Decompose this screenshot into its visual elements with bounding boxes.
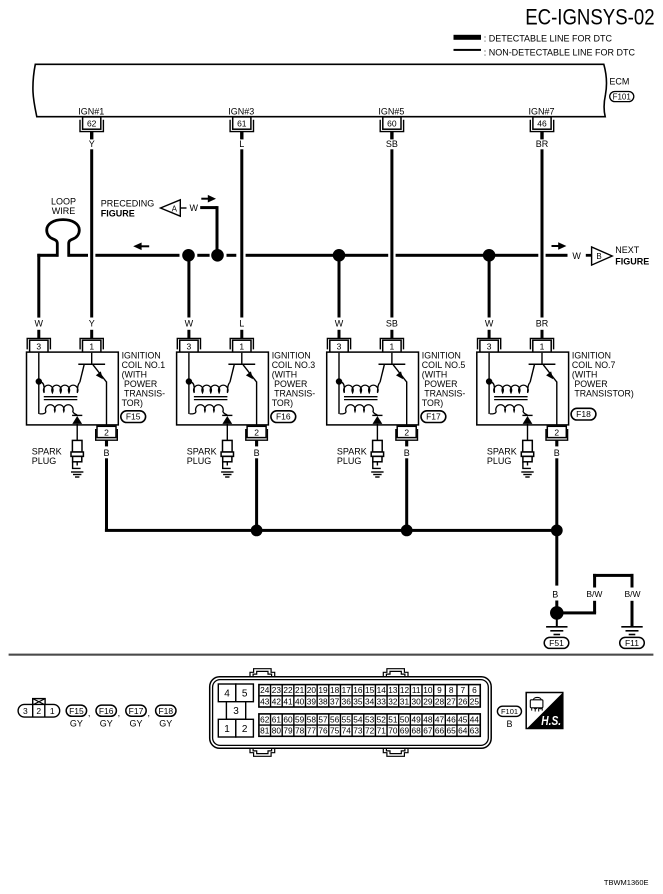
- svg-text:38: 38: [318, 696, 328, 706]
- svg-text:POWER: POWER: [422, 379, 458, 389]
- svg-text:SPARK: SPARK: [187, 447, 217, 457]
- connector F18 oval (bottom): [156, 705, 176, 729]
- transformer core: [44, 397, 78, 400]
- svg-text:50: 50: [400, 714, 410, 724]
- wire SB from ECM pin 60 to ignition coil: [390, 149, 393, 317]
- svg-text:72: 72: [365, 726, 375, 736]
- svg-text:TRANSIS-: TRANSIS-: [422, 388, 466, 398]
- svg-text:PRECEDING: PRECEDING: [101, 198, 155, 208]
- ECM connector top tab: [383, 669, 408, 677]
- ECM box: [33, 64, 607, 116]
- connector F17 oval (bottom): [126, 705, 150, 729]
- wire B from coil NO.5 to ground bus: [405, 458, 408, 529]
- svg-text:32: 32: [388, 696, 398, 706]
- svg-text:2: 2: [254, 428, 259, 438]
- svg-text:15: 15: [365, 685, 375, 695]
- svg-text:34: 34: [365, 696, 375, 706]
- svg-text:6: 6: [472, 685, 477, 695]
- ECM connector pin 61: [230, 117, 253, 140]
- wire color label W (above coil pin 3): [485, 318, 494, 328]
- ignition coil NO.7 pin 2: [546, 426, 568, 446]
- svg-text:3: 3: [487, 341, 492, 351]
- svg-text:Y: Y: [89, 318, 95, 328]
- transistor emitter wire to pin 2: [556, 382, 558, 426]
- svg-text:10: 10: [423, 685, 433, 695]
- wire B/W left leg (upper): [593, 574, 596, 588]
- svg-text:3: 3: [187, 341, 192, 351]
- H.S. logo: [526, 693, 563, 729]
- svg-text:1: 1: [50, 706, 55, 716]
- junction dot inside coil NO.3: [186, 378, 192, 384]
- wire color label B (coil NO.3 pin 2): [254, 448, 260, 458]
- spark plug label (coil NO.5): [337, 447, 367, 467]
- svg-text:IGNITION: IGNITION: [122, 350, 161, 360]
- svg-text:69: 69: [400, 726, 410, 736]
- spark plug (coil NO.5): [371, 440, 383, 468]
- svg-text:62: 62: [260, 714, 270, 724]
- svg-text:F15: F15: [126, 412, 141, 422]
- wire W stub into coil pin 3: [338, 330, 341, 339]
- svg-text:F17: F17: [426, 412, 441, 422]
- svg-text:IGNITION: IGNITION: [572, 350, 611, 360]
- svg-text:53: 53: [365, 714, 375, 724]
- wire color label B/W (left): [586, 589, 602, 599]
- loop wire label: [51, 197, 76, 216]
- wire color label B (coil NO.5 pin 2): [404, 448, 410, 458]
- junction dot (coil no.5 B): [401, 525, 413, 537]
- svg-text:75: 75: [330, 726, 340, 736]
- ignition coil NO.1 pin 3: [27, 338, 50, 352]
- next figure label: [615, 245, 649, 266]
- svg-text:36: 36: [342, 696, 352, 706]
- svg-text:F18: F18: [158, 706, 173, 716]
- svg-text:59: 59: [295, 714, 305, 724]
- svg-text:COIL NO.3: COIL NO.3: [272, 360, 316, 370]
- svg-text:SPARK: SPARK: [32, 447, 62, 457]
- ECM terminal label IGN#1: [78, 106, 104, 116]
- transformer primary winding: [40, 382, 80, 393]
- junction dot inside coil NO.7: [486, 378, 492, 384]
- drawing code TBWM1360E: [604, 878, 649, 887]
- ECM connector top tab: [250, 669, 275, 677]
- ignition coil NO.3 label: [272, 350, 316, 408]
- svg-text:7: 7: [460, 685, 465, 695]
- svg-text:(WITH: (WITH: [422, 369, 447, 379]
- wire B from coil NO.1 to ground bus: [105, 458, 108, 529]
- spark plug label (coil NO.3): [187, 447, 217, 467]
- svg-text:3: 3: [23, 706, 28, 716]
- svg-text:55: 55: [342, 714, 352, 724]
- junction dot (ground splice): [550, 606, 564, 620]
- svg-text:(WITH: (WITH: [272, 369, 297, 379]
- transformer primary winding: [340, 382, 380, 393]
- wire color label Y (above coil): [89, 318, 95, 328]
- svg-text:5: 5: [242, 689, 248, 700]
- svg-text:POWER: POWER: [272, 379, 308, 389]
- svg-text:43: 43: [260, 696, 270, 706]
- transformer core: [494, 397, 527, 400]
- svg-text:16: 16: [353, 685, 363, 695]
- svg-text:1: 1: [239, 341, 244, 351]
- svg-text:NEXT: NEXT: [615, 245, 640, 255]
- svg-text:IGN#7: IGN#7: [528, 106, 554, 116]
- legend detectable line: [454, 33, 613, 43]
- power transistor Q1: [78, 353, 106, 383]
- svg-text:17: 17: [342, 685, 352, 695]
- svg-text:60: 60: [283, 714, 293, 724]
- svg-text:58: 58: [307, 714, 317, 724]
- svg-text:WIRE: WIRE: [52, 206, 76, 216]
- svg-text:POWER: POWER: [122, 379, 158, 389]
- wire W left leg down to coil no.1: [37, 254, 40, 318]
- title EC-IGNSYS-02: [525, 5, 654, 30]
- svg-text:FIGURE: FIGURE: [101, 209, 135, 219]
- ignition coil NO.7 pin 1: [530, 338, 553, 352]
- svg-text:IGNITION: IGNITION: [272, 350, 311, 360]
- ground (spark plug NO.7): [521, 472, 533, 477]
- svg-text:B: B: [596, 252, 601, 261]
- svg-text:W: W: [35, 318, 44, 328]
- connector triangle A (preceding figure): [161, 200, 187, 216]
- power transistor Q3: [379, 353, 407, 383]
- ECM connector cells 4 5 3 1 2: [218, 684, 253, 737]
- svg-text:54: 54: [353, 714, 363, 724]
- svg-text:52: 52: [377, 714, 387, 724]
- svg-text:TOR): TOR): [422, 398, 443, 408]
- svg-text:B: B: [254, 448, 260, 458]
- svg-text:B: B: [103, 448, 109, 458]
- svg-text:: NON-DETECTABLE LINE FOR DTC: : NON-DETECTABLE LINE FOR DTC: [484, 48, 636, 58]
- wire color label SB (above coil): [386, 318, 398, 328]
- wire from pin 3 inside coil: [38, 353, 40, 414]
- svg-text:TRANSIS-: TRANSIS-: [272, 388, 316, 398]
- wire color label L (top): [239, 139, 244, 149]
- ECM connector bottom tab: [383, 748, 408, 756]
- svg-text:67: 67: [423, 726, 433, 736]
- wire color label B/W (right): [624, 589, 640, 599]
- svg-text:37: 37: [330, 696, 340, 706]
- svg-text:IGN#3: IGN#3: [228, 106, 254, 116]
- ground (spark plug NO.3): [221, 472, 233, 477]
- svg-text:41: 41: [283, 696, 293, 706]
- svg-text:COIL NO.7: COIL NO.7: [572, 360, 616, 370]
- svg-text:24: 24: [260, 685, 270, 695]
- svg-text:76: 76: [318, 726, 328, 736]
- svg-text:48: 48: [423, 714, 433, 724]
- svg-text:PLUG: PLUG: [32, 456, 57, 466]
- wire color label B (coil NO.7 pin 2): [554, 448, 560, 458]
- wire color label L (above coil): [239, 318, 244, 328]
- svg-text:46: 46: [447, 714, 457, 724]
- wire color label B (coil NO.1 pin 2): [103, 448, 109, 458]
- svg-text:31: 31: [400, 696, 410, 706]
- transformer secondary winding: [190, 405, 228, 415]
- svg-text:(WITH: (WITH: [572, 369, 597, 379]
- svg-text:4: 4: [224, 689, 230, 700]
- svg-text:18: 18: [330, 685, 340, 695]
- svg-text:45: 45: [458, 714, 468, 724]
- arrow right on bus (to next figure): [552, 242, 567, 250]
- wire W drop to coil no.3: [187, 255, 190, 317]
- svg-text:73: 73: [353, 726, 363, 736]
- wire from pin 3 inside coil: [338, 353, 340, 414]
- loop wire symbol: [47, 220, 80, 257]
- svg-text:TBWM1360E: TBWM1360E: [604, 878, 649, 887]
- ignition coil NO.1 pin 1: [80, 338, 103, 352]
- svg-text:GY: GY: [159, 719, 172, 729]
- junction dot (coil no.3 B): [251, 525, 263, 537]
- wire W drop to coil no.7: [488, 255, 491, 317]
- ECM connector F101 oval: [610, 92, 634, 102]
- wire from pin 3 inside coil: [488, 353, 490, 414]
- wire from diode to spark plug: [76, 424, 78, 441]
- wire B down to ground F51: [555, 530, 558, 585]
- svg-text:BR: BR: [536, 318, 549, 328]
- ground (spark plug NO.1): [71, 472, 83, 477]
- wire W stub into coil pin 3: [187, 330, 190, 339]
- preceding figure label: [101, 198, 155, 218]
- svg-text:EC-IGNSYS-02: EC-IGNSYS-02: [525, 5, 654, 30]
- svg-text:SPARK: SPARK: [487, 447, 517, 457]
- svg-text:13: 13: [388, 685, 398, 695]
- svg-text:B/W: B/W: [624, 589, 640, 599]
- svg-text:IGN#1: IGN#1: [78, 106, 104, 116]
- ECM connector pin 62: [80, 117, 103, 140]
- svg-text:GY: GY: [70, 719, 83, 729]
- svg-text:39: 39: [307, 696, 317, 706]
- wire B/W branch horizontal: [558, 611, 596, 614]
- ground connector F51 oval: [544, 637, 569, 648]
- svg-text:TRANSIS-: TRANSIS-: [122, 388, 166, 398]
- spark plug label (coil NO.7): [487, 447, 517, 467]
- wire B from coil NO.7 to ground bus: [555, 458, 558, 529]
- wire from diode to spark plug: [226, 424, 228, 441]
- wire color label BR (top): [536, 139, 549, 149]
- svg-text:GY: GY: [129, 719, 142, 729]
- svg-text:W: W: [335, 318, 344, 328]
- power transistor Q4: [529, 353, 557, 383]
- svg-text:: DETECTABLE LINE FOR DTC: : DETECTABLE LINE FOR DTC: [484, 33, 613, 43]
- svg-text:B: B: [552, 590, 558, 600]
- wire color label SB (top): [386, 139, 398, 149]
- junction dot (coil no.7 W): [483, 249, 496, 262]
- coil connector F15 oval: [121, 411, 146, 423]
- spark plug (coil NO.7): [521, 440, 533, 468]
- wire Y from ECM pin 62 to ignition coil: [90, 149, 93, 317]
- svg-text:20: 20: [307, 685, 317, 695]
- small coil connector view (3 2 1): [18, 699, 60, 718]
- spark plug label (coil NO.1): [32, 447, 62, 467]
- wire B below label: [555, 601, 558, 608]
- svg-text:3: 3: [36, 341, 41, 351]
- svg-text:TOR): TOR): [122, 398, 143, 408]
- svg-text:78: 78: [295, 726, 305, 736]
- ignition coil NO.5 pin 2: [396, 426, 418, 446]
- svg-text:1: 1: [224, 724, 230, 735]
- svg-text:PLUG: PLUG: [487, 456, 512, 466]
- svg-text:F16: F16: [276, 412, 291, 422]
- wire from pin 3 inside coil: [188, 353, 190, 414]
- svg-text:22: 22: [283, 685, 293, 695]
- transformer primary winding: [490, 382, 530, 393]
- wire color label W (above coil pin 3): [185, 318, 194, 328]
- svg-text:,: ,: [88, 708, 91, 718]
- svg-text:A: A: [172, 204, 178, 213]
- diode D1: [72, 415, 82, 424]
- svg-text:ECM: ECM: [609, 76, 629, 86]
- svg-text:COIL NO.1: COIL NO.1: [122, 360, 166, 370]
- wire from diode to spark plug: [376, 424, 378, 441]
- svg-text:71: 71: [377, 726, 387, 736]
- svg-text:79: 79: [283, 726, 293, 736]
- svg-text:POWER: POWER: [572, 379, 608, 389]
- ECM terminal label IGN#3: [228, 106, 254, 116]
- svg-text:74: 74: [342, 726, 352, 736]
- coil connector F18 oval: [571, 408, 596, 420]
- svg-text:11: 11: [412, 685, 421, 695]
- svg-text:46: 46: [537, 119, 547, 129]
- svg-text:B: B: [554, 448, 560, 458]
- svg-text:PLUG: PLUG: [337, 456, 362, 466]
- wire L from ECM pin 61 to ignition coil: [240, 149, 243, 317]
- svg-text:,: ,: [147, 708, 150, 718]
- transformer core: [194, 397, 228, 400]
- wire BR from ECM pin 46 to ignition coil: [541, 149, 544, 317]
- svg-text:2: 2: [104, 428, 109, 438]
- wire B from coil NO.3 to ground bus: [255, 458, 258, 529]
- wire BR stub into coil pin 1: [541, 330, 544, 339]
- transformer secondary winding: [40, 405, 78, 415]
- svg-text:63: 63: [470, 726, 480, 736]
- junction dot (coil no.3 W): [182, 249, 195, 262]
- svg-text:2: 2: [404, 428, 409, 438]
- ignition coil NO.1 box: [27, 352, 119, 425]
- ground connector F11 oval: [620, 637, 645, 648]
- legend non-detectable line: [454, 48, 636, 58]
- svg-text:23: 23: [272, 685, 282, 695]
- diode D3: [372, 415, 382, 424]
- svg-text:IGN#5: IGN#5: [378, 106, 404, 116]
- ignition coil NO.5 pin 1: [380, 338, 403, 352]
- svg-text:(WITH: (WITH: [122, 369, 147, 379]
- wire stem to ground F51: [556, 616, 558, 627]
- svg-text:2: 2: [242, 724, 248, 735]
- svg-text:B: B: [404, 448, 410, 458]
- svg-text:BR: BR: [536, 139, 549, 149]
- wire color label B (ground): [552, 590, 558, 600]
- svg-text:TRANSISTOR): TRANSISTOR): [572, 388, 634, 398]
- diode D2: [222, 415, 232, 424]
- ECM terminal label IGN#7: [528, 106, 554, 116]
- junction dot (coil no.7 B): [551, 525, 563, 537]
- junction dot inside coil NO.5: [336, 378, 342, 384]
- svg-text:30: 30: [412, 696, 422, 706]
- wire Y stub into coil pin 1: [90, 330, 93, 339]
- ECM connector pin 46: [530, 117, 553, 140]
- wire color label BR (above coil): [536, 318, 549, 328]
- arrow left on bus: [133, 243, 149, 251]
- ignition coil NO.1 pin 2: [96, 426, 118, 446]
- svg-text:28: 28: [435, 696, 445, 706]
- separator line: [9, 654, 654, 656]
- svg-text:3: 3: [233, 706, 239, 717]
- svg-text:F18: F18: [576, 409, 591, 419]
- ignition coil NO.7 box: [477, 352, 569, 425]
- ECM connector pin 60: [380, 117, 403, 140]
- svg-text:L: L: [239, 139, 244, 149]
- svg-text:49: 49: [412, 714, 422, 724]
- wire SB stub into coil pin 1: [390, 330, 393, 339]
- transistor emitter wire to pin 2: [256, 382, 258, 426]
- svg-text:44: 44: [470, 714, 480, 724]
- svg-text:L: L: [239, 318, 244, 328]
- svg-text:51: 51: [388, 714, 398, 724]
- transistor emitter wire to pin 2: [106, 382, 108, 426]
- wire color label Y (top): [89, 139, 95, 149]
- ignition coil NO.7 label: [572, 350, 634, 398]
- wire W from preceding figure to bus: [200, 206, 218, 252]
- svg-text:W: W: [189, 203, 198, 213]
- ECM connector F101 oval (bottom): [497, 706, 521, 729]
- svg-text:IGNITION: IGNITION: [422, 350, 461, 360]
- arrow right (preceding figure wire): [201, 195, 216, 203]
- ECM connector terminal grid: [259, 685, 480, 737]
- svg-text:,: ,: [118, 708, 121, 718]
- junction dot inside coil NO.1: [36, 378, 42, 384]
- svg-text:PLUG: PLUG: [187, 456, 212, 466]
- svg-text:9: 9: [437, 685, 442, 695]
- connector F15 oval (bottom): [66, 705, 90, 729]
- svg-text:56: 56: [330, 714, 340, 724]
- svg-text:42: 42: [272, 696, 282, 706]
- svg-text:W: W: [485, 318, 494, 328]
- svg-text:21: 21: [295, 685, 305, 695]
- wire B/W left leg (lower): [593, 601, 596, 613]
- ignition coil NO.5 pin 3: [327, 338, 350, 352]
- transformer primary winding: [190, 382, 230, 393]
- svg-text:1: 1: [89, 341, 94, 351]
- svg-text:COIL NO.5: COIL NO.5: [422, 360, 466, 370]
- svg-text:61: 61: [237, 119, 247, 129]
- svg-text:3: 3: [337, 341, 342, 351]
- ignition coil NO.7 pin 3: [478, 338, 501, 352]
- svg-text:2: 2: [554, 428, 559, 438]
- svg-text:27: 27: [447, 696, 457, 706]
- wire B/W right leg (upper): [631, 574, 634, 588]
- wire L stub into coil pin 1: [240, 330, 243, 339]
- ignition coil NO.3 pin 2: [246, 426, 268, 446]
- svg-text:F101: F101: [613, 92, 632, 101]
- svg-text:F11: F11: [625, 638, 639, 648]
- ECM connector bottom tab: [250, 748, 275, 756]
- ignition coil NO.3 pin 1: [230, 338, 253, 352]
- svg-text:12: 12: [400, 685, 410, 695]
- svg-text:GY: GY: [100, 719, 113, 729]
- power transistor Q2: [228, 353, 256, 383]
- ignition coil NO.1 label: [122, 350, 166, 408]
- svg-text:SB: SB: [386, 139, 398, 149]
- svg-text:FIGURE: FIGURE: [615, 257, 649, 267]
- svg-text:61: 61: [272, 714, 282, 724]
- svg-text:64: 64: [458, 726, 468, 736]
- svg-text:F17: F17: [129, 706, 144, 716]
- ground F51 symbol: [546, 627, 567, 635]
- svg-text:SPARK: SPARK: [337, 447, 367, 457]
- svg-text:B/W: B/W: [586, 589, 602, 599]
- wire color label W (above coil pin 3): [335, 318, 344, 328]
- wire W stub into coil pin 3: [37, 330, 40, 339]
- wire W dash to next figure: [586, 254, 591, 257]
